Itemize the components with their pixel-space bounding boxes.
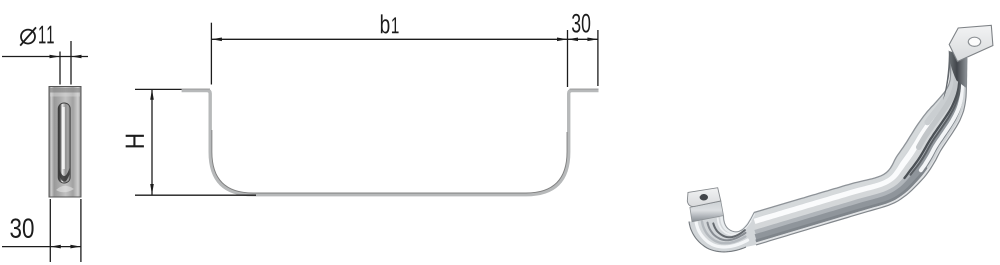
- right fold face: [949, 51, 967, 88]
- profile flange top thin edges: [182, 88, 210, 90]
- J-curve inner face light: [721, 215, 753, 233]
- text 11 of diameter dim: [39, 26, 45, 44]
- strap lower mid tone: [755, 58, 960, 233]
- bend outer grey line: [928, 65, 965, 167]
- arrows 30 bottom: [50, 245, 61, 249]
- dimension line Ø11: [2, 56, 88, 58]
- strap white highlight stripe: [755, 58, 956, 222]
- arrows b1: [211, 38, 222, 42]
- side view bar: [49, 87, 81, 198]
- dimension line H: [151, 89, 153, 194]
- J-curve outer white stripe: [696, 220, 748, 247]
- J-curve mid stripe: [708, 223, 746, 241]
- extension line b1 left: [210, 23, 212, 85]
- J-curve outer edge line: [689, 222, 746, 252]
- dimension line 30 bottom: [2, 246, 81, 248]
- extension lines 30 bottom (bar edges): [50, 199, 81, 262]
- bend dark stripe B: [905, 65, 960, 178]
- bend mid grey: [919, 65, 957, 148]
- strap mid tone: [755, 58, 958, 227]
- bend outer white stripe: [921, 65, 964, 170]
- bend inner grey cover: [927, 64, 953, 122]
- arrows H: [150, 89, 154, 100]
- strap light zone under top edge: [754, 58, 952, 216]
- left fold face: [690, 201, 724, 222]
- J-curve light mid stripe: [702, 222, 745, 244]
- strap silhouette (whole part): [689, 58, 967, 252]
- right tab hole: [968, 37, 980, 46]
- strap lower shading band: [756, 58, 963, 237]
- J-curve inner bright stripe: [718, 219, 751, 235]
- strap top edge line: [754, 58, 951, 213]
- bend dark stripe C: [911, 65, 961, 175]
- text b1: [381, 14, 390, 33]
- arrows 30 top: [568, 38, 579, 42]
- extension line H bottom: [135, 194, 256, 196]
- slot in bar: [56, 103, 74, 192]
- text 30 bottom left: [10, 218, 21, 238]
- J-curve dark stripe: [713, 223, 745, 237]
- extension lines 30 top: [568, 30, 598, 87]
- dimension Ø11 text: [20, 27, 36, 45]
- J-curve inner edge line: [724, 213, 755, 232]
- profile cross-section (grey channel): [182, 91, 599, 195]
- dimension line b1: [211, 38, 567, 40]
- extension line H top: [135, 88, 182, 90]
- strap deep shadow line: [756, 58, 965, 241]
- text H (rotated): [126, 135, 144, 148]
- profile inner dark edge along bottom: [212, 130, 567, 193]
- left tab: [687, 188, 721, 207]
- dimension line 30 top: [568, 38, 598, 40]
- strap bottom bright sliver: [756, 58, 966, 244]
- left tab hole: [700, 194, 708, 201]
- text 30 top right: [572, 14, 580, 33]
- strap bottom edge line: [756, 58, 967, 245]
- extension lines Ø11 (slot edges): [60, 41, 71, 85]
- arrows Ø11: [50, 55, 61, 59]
- right tab: [949, 25, 993, 61]
